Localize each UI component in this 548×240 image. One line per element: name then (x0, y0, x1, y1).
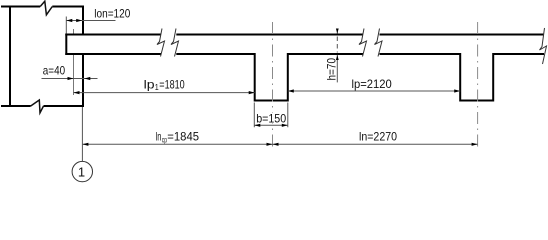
dim lp=2120 line (288, 90, 460, 92)
rib R2 outline (459, 53, 494, 101)
slab break 1 right zigzag (171, 29, 179, 57)
dim a=40 extension line (73, 29, 75, 95)
svg-text:1: 1 (78, 164, 85, 179)
svg-text:h=70: h=70 (325, 58, 339, 81)
dim lon=120 line (66, 20, 115, 22)
svg-text:=1845: =1845 (167, 130, 199, 144)
dim a=40 line (42, 78, 98, 80)
slab break 2 right zigzag (375, 29, 383, 57)
rib R1 outline (254, 53, 289, 101)
dim lon=120 extension line above slab end (65, 17, 67, 34)
dim b=150 line (254, 124, 287, 126)
dim lp arrows (288, 89, 460, 92)
wall left edge (9, 6, 11, 108)
rib R1 center axis (dash-dot) (272, 22, 274, 148)
slab bottom line (65, 53, 544, 55)
dim ln row line (82, 143, 477, 145)
wall right face on axis 1 (interrupted by slab) (82, 6, 84, 108)
svg-text:=1810: =1810 (159, 77, 185, 91)
slab left end edge (65, 34, 67, 56)
wall top line (1, 6, 84, 8)
dim b arrows (254, 124, 287, 127)
dim a arrows (68, 77, 91, 80)
rib R2 center axis (dash-dot) (477, 22, 479, 148)
wall bottom line (1, 105, 84, 107)
slab break 2 left zigzag (359, 29, 367, 57)
dim lp1 arrows (74, 91, 255, 94)
svg-text:b=150: b=150 (256, 111, 286, 125)
svg-text:a=40: a=40 (43, 63, 66, 77)
svg-text:ln=2270: ln=2270 (359, 130, 397, 144)
dim h arrows (336, 29, 339, 61)
dim ln row arrows (82, 143, 477, 146)
dim b=150 extension lines (254, 103, 287, 128)
svg-text:lp: lp (144, 77, 155, 91)
slab right end break zigzag (540, 28, 547, 64)
svg-text:ln: ln (156, 130, 162, 144)
axis 1 circle (72, 161, 92, 181)
slab top line (65, 34, 544, 36)
dim lp1=1810 line (74, 92, 255, 94)
wall bottom break (31, 100, 44, 113)
svg-text:lp=2120: lp=2120 (352, 77, 393, 91)
dim h=70 extension line (solid above, dashed through slab, solid below) (336, 29, 338, 34)
slab break 1 left zigzag (157, 29, 165, 57)
wall top break (40, 1, 52, 15)
svg-text:lon=120: lon=120 (94, 7, 130, 21)
dim lon arrows (66, 19, 82, 22)
dim b text white backing (256, 113, 287, 124)
axis 1 line below wall (81, 107, 83, 161)
